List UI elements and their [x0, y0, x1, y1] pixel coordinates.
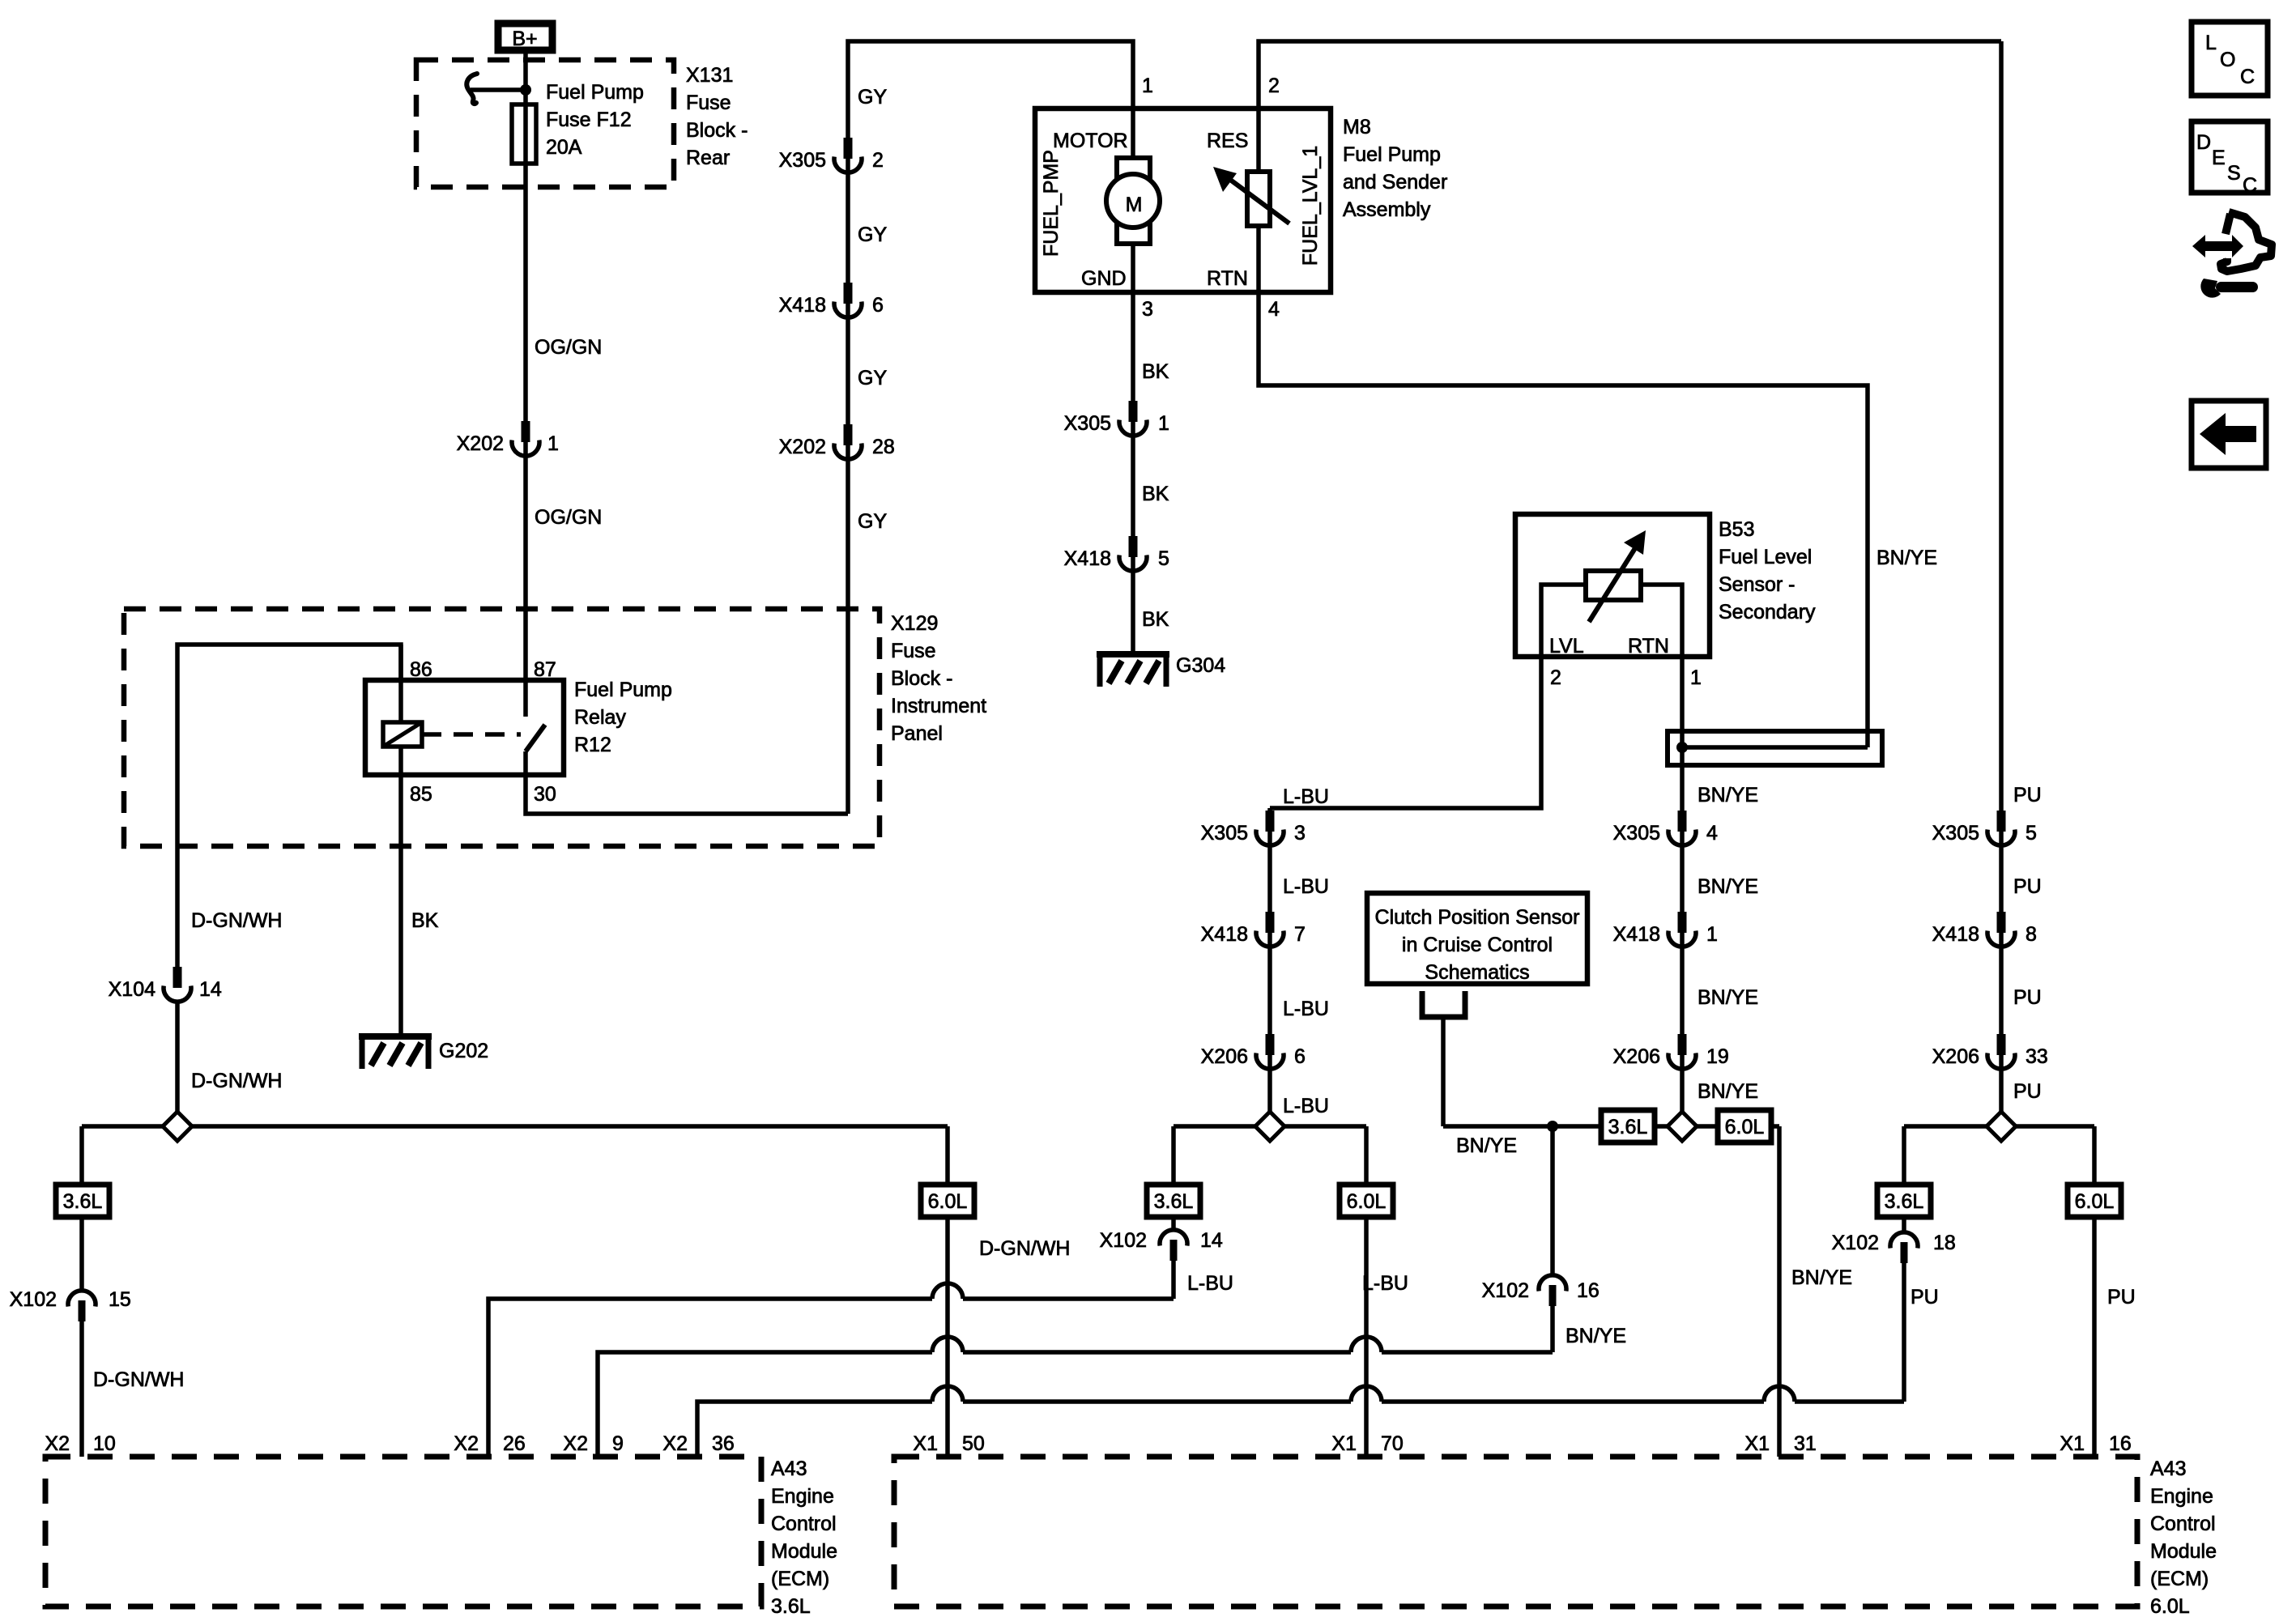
svg-text:RTN: RTN [1207, 267, 1248, 290]
wire BN/YE 3.6L branch to X102-16 [1550, 1126, 1555, 1352]
svg-text:A43: A43 [2150, 1457, 2186, 1480]
label connector X102 pin 15 [10, 1288, 131, 1311]
svg-text:PU: PU [1910, 1286, 1939, 1308]
svg-text:36: 36 [712, 1432, 735, 1455]
svg-text:Fuel Pump: Fuel Pump [1343, 143, 1441, 166]
svg-text:G202: G202 [439, 1040, 488, 1062]
motor M symbol [1106, 158, 1160, 244]
svg-text:Module: Module [771, 1540, 837, 1563]
icon wiring repair double arrow [2192, 235, 2243, 257]
svg-text:31: 31 [1794, 1432, 1817, 1455]
svg-text:Fuel Pump: Fuel Pump [574, 679, 672, 701]
label ECM pin X1-50 [913, 1432, 984, 1455]
diamond splice D-GN/WH [163, 1112, 192, 1141]
wire M8 RES pin 2 up to top line [1259, 41, 2001, 292]
svg-text:5: 5 [1158, 547, 1169, 570]
svg-text:X102: X102 [1482, 1279, 1529, 1302]
svg-text:Schematics: Schematics [1425, 961, 1529, 984]
svg-text:3.6L: 3.6L [1885, 1190, 1924, 1213]
svg-text:16: 16 [2109, 1432, 2132, 1455]
wire X104-14 to D-GN/WH diamond [175, 1003, 180, 1126]
fuel pump relay R12 box [365, 680, 564, 775]
B53 variable resistor [1586, 530, 1646, 622]
clutch position sensor reference box [1367, 893, 1587, 984]
fuel pump and sender assembly M8 box [1035, 109, 1331, 292]
svg-text:Block -: Block - [891, 667, 952, 690]
wire L-BU 6.0L branch to ECM X1-70 [1364, 1126, 1369, 1457]
connector X418 pin 1 [1668, 912, 1696, 947]
ground G304 [1097, 654, 1169, 687]
svg-text:GY: GY [858, 367, 887, 389]
svg-text:X102: X102 [10, 1288, 57, 1311]
label connector X104 pin 14 [109, 978, 222, 1001]
svg-text:19: 19 [1706, 1045, 1729, 1068]
label connector X305 pin 3 [1201, 822, 1306, 845]
label connector X206 pin 19 [1613, 1045, 1729, 1068]
icon wiring repair outline [2221, 212, 2272, 271]
svg-text:C: C [2243, 174, 2257, 197]
engine option box 6.0L PU [2068, 1185, 2121, 1217]
svg-text:14: 14 [1200, 1229, 1223, 1252]
svg-text:X202: X202 [457, 432, 504, 455]
svg-text:X418: X418 [1932, 923, 1979, 946]
svg-text:15: 15 [109, 1288, 131, 1311]
svg-text:10: 10 [93, 1432, 116, 1455]
svg-text:D-GN/WH: D-GN/WH [979, 1237, 1070, 1260]
svg-text:E: E [2212, 147, 2226, 169]
svg-text:Control: Control [2150, 1513, 2216, 1535]
connector X305 pin 4 [1668, 811, 1696, 845]
connector X102 pin 16 [1539, 1275, 1566, 1306]
svg-text:RTN: RTN [1628, 635, 1669, 657]
svg-text:3.6L: 3.6L [1608, 1116, 1648, 1138]
svg-text:D: D [2196, 131, 2211, 154]
svg-text:2: 2 [872, 149, 884, 172]
svg-text:50: 50 [962, 1432, 985, 1455]
svg-text:20A: 20A [546, 136, 582, 159]
connector X102 pin 14 [1160, 1230, 1187, 1261]
svg-text:Fuse F12: Fuse F12 [546, 109, 632, 131]
wire BN/YE bus [1443, 1124, 1779, 1129]
svg-text:GY: GY [858, 223, 887, 246]
svg-text:Sensor -: Sensor - [1719, 573, 1795, 596]
svg-text:6.0L: 6.0L [928, 1190, 968, 1213]
svg-text:L-BU: L-BU [1362, 1272, 1408, 1295]
diamond splice PU [1987, 1112, 2016, 1141]
svg-text:Module: Module [2150, 1540, 2217, 1563]
connector X206 pin 19 [1668, 1034, 1696, 1069]
label ECM pin X2-10 [45, 1432, 115, 1455]
svg-text:Engine: Engine [2150, 1485, 2213, 1508]
icon DESC box [2192, 121, 2268, 197]
svg-text:OG/GN: OG/GN [535, 336, 602, 359]
connector X418 pin 6 [834, 283, 862, 317]
hop line A over X1-50 wire [932, 1283, 963, 1299]
svg-text:Instrument: Instrument [891, 695, 986, 717]
engine option box 3.6L PU [1877, 1185, 1931, 1217]
svg-text:X1: X1 [2060, 1432, 2085, 1455]
svg-text:Secondary: Secondary [1719, 601, 1816, 623]
fuse block instrument panel X129 dashed box [124, 609, 880, 846]
label connector X418 pin 5 [1064, 547, 1169, 570]
label M8 fuel pump and sender assembly [1343, 116, 1447, 221]
wire D-GN/WH 6.0L branch to ECM X1-50 [945, 1126, 950, 1457]
svg-text:L-BU: L-BU [1187, 1272, 1233, 1295]
label ECM pin X2-9 [563, 1432, 624, 1455]
svg-text:Fuse: Fuse [686, 91, 731, 114]
label connector X102 pin 16 [1482, 1279, 1600, 1302]
svg-text:D-GN/WH: D-GN/WH [191, 909, 282, 932]
connector X206 pin 6 [1256, 1034, 1284, 1069]
node junction dot at splice box [1676, 742, 1688, 753]
svg-text:BK: BK [1142, 608, 1169, 631]
wire line C PU to ECM X2-36 [697, 1402, 1904, 1457]
svg-text:X102: X102 [1832, 1232, 1879, 1254]
svg-text:BN/YE: BN/YE [1698, 875, 1758, 898]
fuse F12 body [512, 104, 536, 164]
engine option box 6.0L L-BU [1340, 1185, 1393, 1217]
svg-text:X206: X206 [1201, 1045, 1248, 1068]
node junction dot at fuse hook [520, 84, 531, 96]
svg-text:X418: X418 [1201, 923, 1248, 946]
svg-text:3: 3 [1294, 822, 1306, 845]
label X131 fuse block rear [686, 64, 748, 169]
icon wrench [2200, 279, 2258, 298]
svg-text:BN/YE: BN/YE [1876, 547, 1937, 569]
svg-text:PU: PU [2013, 875, 2042, 898]
clutch sensor off-page bracket [1422, 991, 1465, 1017]
label connector X202 pin 28 [779, 436, 895, 458]
svg-text:FUEL_LVL_1: FUEL_LVL_1 [1299, 146, 1322, 266]
wire D-GN/WH bus [82, 1124, 948, 1129]
svg-text:1: 1 [1142, 74, 1153, 97]
label connector X418 pin 1 [1613, 923, 1718, 946]
svg-text:X305: X305 [1613, 822, 1660, 845]
wire L-BU chain vertical X305-3 X418-7 X206-6 [1267, 808, 1272, 1126]
hop line B over X1-50 wire [932, 1337, 963, 1352]
svg-text:X1: X1 [1744, 1432, 1770, 1455]
wire PU 3.6L branch to X102-18 [1902, 1126, 1906, 1402]
svg-text:70: 70 [1381, 1432, 1404, 1455]
label connector X102 pin 14 [1100, 1229, 1223, 1252]
svg-text:B+: B+ [512, 28, 537, 50]
connector X305 pin 2 [834, 138, 862, 172]
engine option box 3.6L L-BU [1147, 1185, 1200, 1217]
connector X202 pin 1 [512, 421, 539, 456]
label connector X418 pin 6 [779, 294, 884, 317]
svg-text:X305: X305 [779, 149, 826, 172]
label connector X418 pin 7 [1201, 923, 1306, 946]
svg-text:O: O [2220, 49, 2235, 71]
wire relay coil pin 86 to X104-14 [177, 645, 401, 968]
wire BN/YE 6.0L branch to ECM X1-31 [1777, 1126, 1782, 1457]
svg-text:30: 30 [534, 783, 556, 806]
svg-text:4: 4 [1268, 298, 1280, 321]
svg-text:M8: M8 [1343, 116, 1371, 138]
wire line A L-BU to ECM X2-26 [488, 1299, 1174, 1457]
hop line B over X1-70 wire [1351, 1337, 1382, 1352]
svg-text:D-GN/WH: D-GN/WH [93, 1368, 184, 1391]
svg-text:BK: BK [1142, 360, 1169, 383]
label connector X305 pin 5 [1932, 822, 2037, 845]
label connector X305 pin 1 [1064, 412, 1169, 435]
svg-text:(ECM): (ECM) [2150, 1568, 2209, 1590]
svg-text:R12: R12 [574, 734, 611, 756]
label connector X305 pin 2 [779, 149, 884, 172]
svg-text:18: 18 [1933, 1232, 1956, 1254]
svg-text:Panel: Panel [891, 722, 943, 745]
svg-text:X305: X305 [1064, 412, 1111, 435]
svg-text:PU: PU [2013, 1080, 2042, 1103]
label ECM pin X2-26 [454, 1432, 525, 1455]
svg-text:PU: PU [2107, 1286, 2136, 1308]
svg-text:X2: X2 [45, 1432, 70, 1455]
label fuse F12 [546, 81, 644, 159]
wire PU 6.0L branch to ECM X1-16 [2092, 1126, 2097, 1457]
label connector X202 pin 1 [457, 432, 559, 455]
wire fuel pump motor and BK ground chain [1131, 109, 1135, 654]
svg-text:5: 5 [2026, 822, 2037, 845]
svg-text:BK: BK [411, 909, 439, 932]
ground G202 [359, 1036, 432, 1069]
label X129 fuse block instrument panel [891, 612, 986, 745]
svg-text:Fuse: Fuse [891, 640, 936, 662]
svg-text:MOTOR: MOTOR [1053, 130, 1128, 152]
svg-text:3.6L: 3.6L [63, 1190, 103, 1213]
svg-text:BN/YE: BN/YE [1698, 784, 1758, 806]
connector X418 pin 8 [1987, 912, 2015, 947]
label ECM pin X1-70 [1331, 1432, 1403, 1455]
svg-text:M: M [1126, 194, 1143, 216]
fuel level sensor secondary B53 box [1515, 514, 1710, 657]
svg-text:BN/YE: BN/YE [1698, 986, 1758, 1009]
engine option box 3.6L D-GN/WH [56, 1185, 109, 1217]
label A43 ECM 3.6L [771, 1457, 837, 1617]
svg-text:RES: RES [1207, 130, 1248, 152]
hop line C over X1-31 wire [1764, 1386, 1795, 1402]
svg-text:S: S [2227, 162, 2241, 185]
svg-text:L-BU: L-BU [1283, 998, 1329, 1020]
battery B+ terminal box [498, 23, 552, 50]
svg-text:26: 26 [503, 1432, 526, 1455]
svg-text:6.0L: 6.0L [1347, 1190, 1387, 1213]
diamond splice L-BU [1255, 1112, 1284, 1141]
svg-text:1: 1 [1706, 923, 1718, 946]
svg-text:X206: X206 [1932, 1045, 1979, 1068]
relay coil to switch dashed link [422, 732, 521, 737]
connector X102 pin 15 [68, 1291, 96, 1321]
svg-text:OG/GN: OG/GN [535, 506, 602, 529]
engine control module ECM 3.6L dashed box [45, 1457, 761, 1606]
svg-text:X418: X418 [1064, 547, 1111, 570]
relay switch blade [526, 725, 545, 751]
wire line B BN/YE to ECM X2-9 [598, 1352, 1553, 1457]
svg-text:3: 3 [1142, 298, 1153, 321]
svg-text:G304: G304 [1176, 654, 1225, 677]
svg-text:X1: X1 [913, 1432, 938, 1455]
wire B53 RTN pin 1 through splice to BN/YE chain [1680, 657, 1685, 1126]
svg-text:A43: A43 [771, 1457, 807, 1480]
svg-text:Clutch Position Sensor: Clutch Position Sensor [1375, 906, 1580, 929]
engine option box 6.0L D-GN/WH [921, 1185, 974, 1217]
connector X418 pin 7 [1256, 912, 1284, 947]
svg-text:X131: X131 [686, 64, 733, 87]
label A43 ECM 6.0L [2150, 1457, 2217, 1617]
svg-text:Engine: Engine [771, 1485, 834, 1508]
svg-text:4: 4 [1706, 822, 1718, 845]
hop line C over X1-50 wire [932, 1386, 963, 1402]
wire splice link [1682, 745, 1868, 750]
svg-text:X2: X2 [563, 1432, 588, 1455]
wire GY chain vertical X305-2 X418-6 X202-28 [848, 41, 1133, 814]
svg-text:L-BU: L-BU [1283, 1095, 1329, 1117]
label connector X418 pin 8 [1932, 923, 2037, 946]
label B53 fuel level sensor secondary [1719, 518, 1816, 623]
svg-text:B53: B53 [1719, 518, 1754, 541]
wire hook to junction [471, 87, 526, 92]
svg-text:LVL: LVL [1549, 635, 1584, 657]
fuse hook switch symbol [466, 74, 477, 104]
svg-text:BN/YE: BN/YE [1698, 1080, 1758, 1103]
svg-text:PU: PU [2013, 986, 2042, 1009]
svg-text:6: 6 [872, 294, 884, 317]
svg-text:X104: X104 [109, 978, 155, 1001]
svg-text:BN/YE: BN/YE [1456, 1134, 1517, 1157]
wire PU bus [1904, 1124, 2094, 1129]
svg-text:2: 2 [1268, 74, 1280, 97]
svg-text:6.0L: 6.0L [2075, 1190, 2115, 1213]
svg-text:X418: X418 [779, 294, 826, 317]
svg-text:X2: X2 [662, 1432, 688, 1455]
wire relay switch contact to pin 30 [526, 751, 848, 814]
svg-text:Control: Control [771, 1513, 837, 1535]
svg-text:X129: X129 [891, 612, 938, 635]
svg-text:28: 28 [872, 436, 895, 458]
wire L-BU bus [1174, 1124, 1366, 1129]
icon LOC box [2192, 22, 2268, 96]
wire D-GN/WH 3.6L branch to X102-15 to ECM X2-10 [79, 1126, 84, 1457]
svg-text:1: 1 [1690, 666, 1702, 689]
label connector X206 pin 33 [1932, 1045, 2048, 1068]
svg-text:C: C [2240, 66, 2255, 88]
wire B53 LVL pin 2 to L-BU chain [1270, 657, 1541, 808]
svg-text:FUEL_PMP: FUEL_PMP [1040, 150, 1063, 257]
svg-text:8: 8 [2026, 923, 2037, 946]
wire clutch sensor drop [1441, 1017, 1446, 1126]
svg-text:X305: X305 [1201, 822, 1248, 845]
svg-text:BK: BK [1142, 483, 1169, 505]
svg-text:9: 9 [612, 1432, 624, 1455]
svg-text:L-BU: L-BU [1283, 785, 1329, 808]
wire PU chain vertical X305-5 X418-8 X206-33 [1999, 41, 2004, 1126]
svg-text:Fuel Level: Fuel Level [1719, 546, 1812, 568]
svg-text:X305: X305 [1932, 822, 1979, 845]
label fuel pump relay R12 [574, 679, 672, 756]
svg-text:16: 16 [1577, 1279, 1600, 1302]
label connector X206 pin 6 [1201, 1045, 1306, 1068]
splice pack box [1668, 731, 1882, 765]
relay coil [383, 722, 422, 747]
svg-text:1: 1 [1158, 412, 1169, 435]
label ECM pin X1-31 [1744, 1432, 1816, 1455]
svg-text:3.6L: 3.6L [1154, 1190, 1194, 1213]
svg-text:Relay: Relay [574, 706, 626, 729]
svg-text:Rear: Rear [686, 147, 730, 169]
svg-text:X102: X102 [1100, 1229, 1147, 1252]
label connector X305 pin 4 [1613, 822, 1718, 845]
hop line C over X1-70 wire [1351, 1386, 1382, 1402]
svg-text:14: 14 [199, 978, 222, 1001]
connector X102 pin 18 [1890, 1232, 1918, 1263]
svg-text:X1: X1 [1331, 1432, 1357, 1455]
wire L-BU 3.6L branch to X102-14 [1171, 1126, 1176, 1299]
icon back arrow box [2192, 401, 2266, 468]
svg-text:in Cruise Control: in Cruise Control [1402, 934, 1553, 956]
connector X202 pin 28 [834, 424, 862, 459]
svg-text:BN/YE: BN/YE [1565, 1325, 1626, 1347]
connector X418 pin 5 [1119, 536, 1147, 571]
diamond splice BN/YE [1668, 1112, 1697, 1141]
svg-text:33: 33 [2026, 1045, 2048, 1068]
svg-text:D-GN/WH: D-GN/WH [191, 1070, 282, 1092]
svg-text:X202: X202 [779, 436, 826, 458]
label connector X102 pin 18 [1832, 1232, 1956, 1254]
label ECM pin X2-36 [662, 1432, 734, 1455]
svg-text:and Sender: and Sender [1343, 171, 1447, 194]
svg-text:X2: X2 [454, 1432, 479, 1455]
svg-text:86: 86 [410, 658, 432, 681]
svg-text:X418: X418 [1613, 923, 1660, 946]
svg-text:Fuel Pump: Fuel Pump [546, 81, 644, 104]
svg-text:2: 2 [1550, 666, 1561, 689]
svg-text:1: 1 [547, 432, 559, 455]
B53 internal wiring [1541, 585, 1682, 657]
engine option box 6.0L BN/YE inline [1718, 1110, 1771, 1143]
connector X206 pin 33 [1987, 1034, 2015, 1069]
svg-text:BN/YE: BN/YE [1791, 1266, 1852, 1289]
svg-text:87: 87 [534, 658, 556, 681]
engine control module ECM 6.0L dashed box [894, 1457, 2137, 1606]
engine option box 3.6L BN/YE inline [1601, 1110, 1655, 1143]
node junction dot BN/YE bus to X102-16 [1547, 1121, 1558, 1132]
label ECM pin X1-16 [2060, 1432, 2131, 1455]
connector X305 pin 5 [1987, 811, 2015, 845]
svg-text:X206: X206 [1613, 1045, 1660, 1068]
svg-text:GND: GND [1081, 267, 1127, 290]
svg-text:6: 6 [1294, 1045, 1306, 1068]
wire B+ to fuse to X202-1 to relay pin 87 [523, 53, 528, 717]
wire M8 pin 4 RTN to splice [1259, 292, 1868, 747]
svg-text:L-BU: L-BU [1283, 875, 1329, 898]
svg-text:7: 7 [1294, 923, 1306, 946]
wire relay coil through pins 86-85 [398, 645, 403, 1036]
connector X305 pin 1 [1119, 401, 1147, 436]
svg-text:85: 85 [410, 783, 432, 806]
fuse block rear X131 dashed box [416, 60, 674, 187]
svg-text:L: L [2205, 32, 2217, 54]
svg-text:(ECM): (ECM) [771, 1568, 829, 1590]
svg-text:Assembly: Assembly [1343, 198, 1431, 221]
svg-text:Block -: Block - [686, 119, 748, 142]
svg-text:PU: PU [2013, 784, 2042, 806]
svg-text:GY: GY [858, 510, 887, 533]
svg-text:6.0L: 6.0L [2150, 1595, 2190, 1617]
connector X104 pin 14 [164, 967, 191, 1002]
svg-text:GY: GY [858, 86, 887, 109]
svg-text:3.6L: 3.6L [771, 1595, 811, 1617]
svg-text:6.0L: 6.0L [1725, 1116, 1765, 1138]
fuel level sender variable resistor [1213, 167, 1289, 226]
